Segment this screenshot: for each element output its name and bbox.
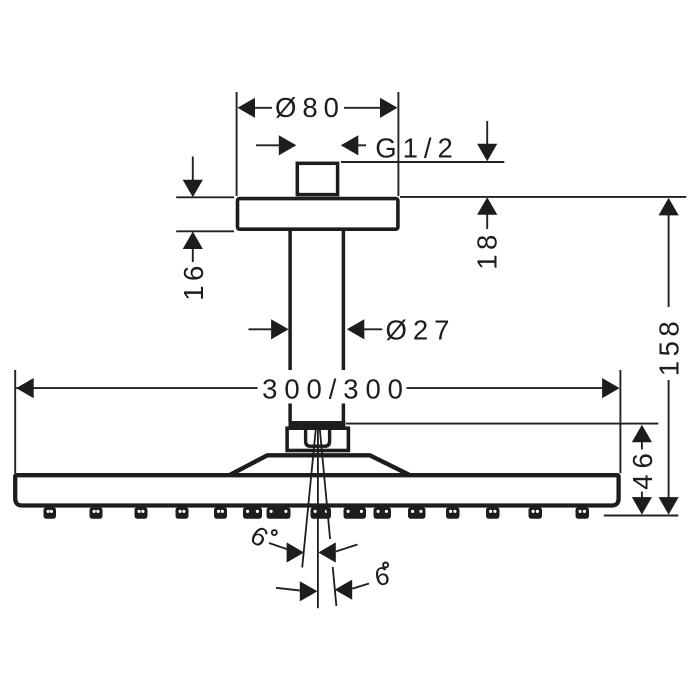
svg-text:46: 46 bbox=[627, 447, 658, 490]
svg-text:G1/2: G1/2 bbox=[375, 132, 459, 163]
svg-text:Ø27: Ø27 bbox=[386, 314, 456, 345]
svg-text:Ø80: Ø80 bbox=[275, 92, 345, 123]
svg-text:16: 16 bbox=[178, 261, 209, 301]
svg-text:18: 18 bbox=[472, 230, 503, 270]
svg-text:158: 158 bbox=[653, 317, 684, 376]
svg-text:300/300: 300/300 bbox=[262, 374, 410, 405]
